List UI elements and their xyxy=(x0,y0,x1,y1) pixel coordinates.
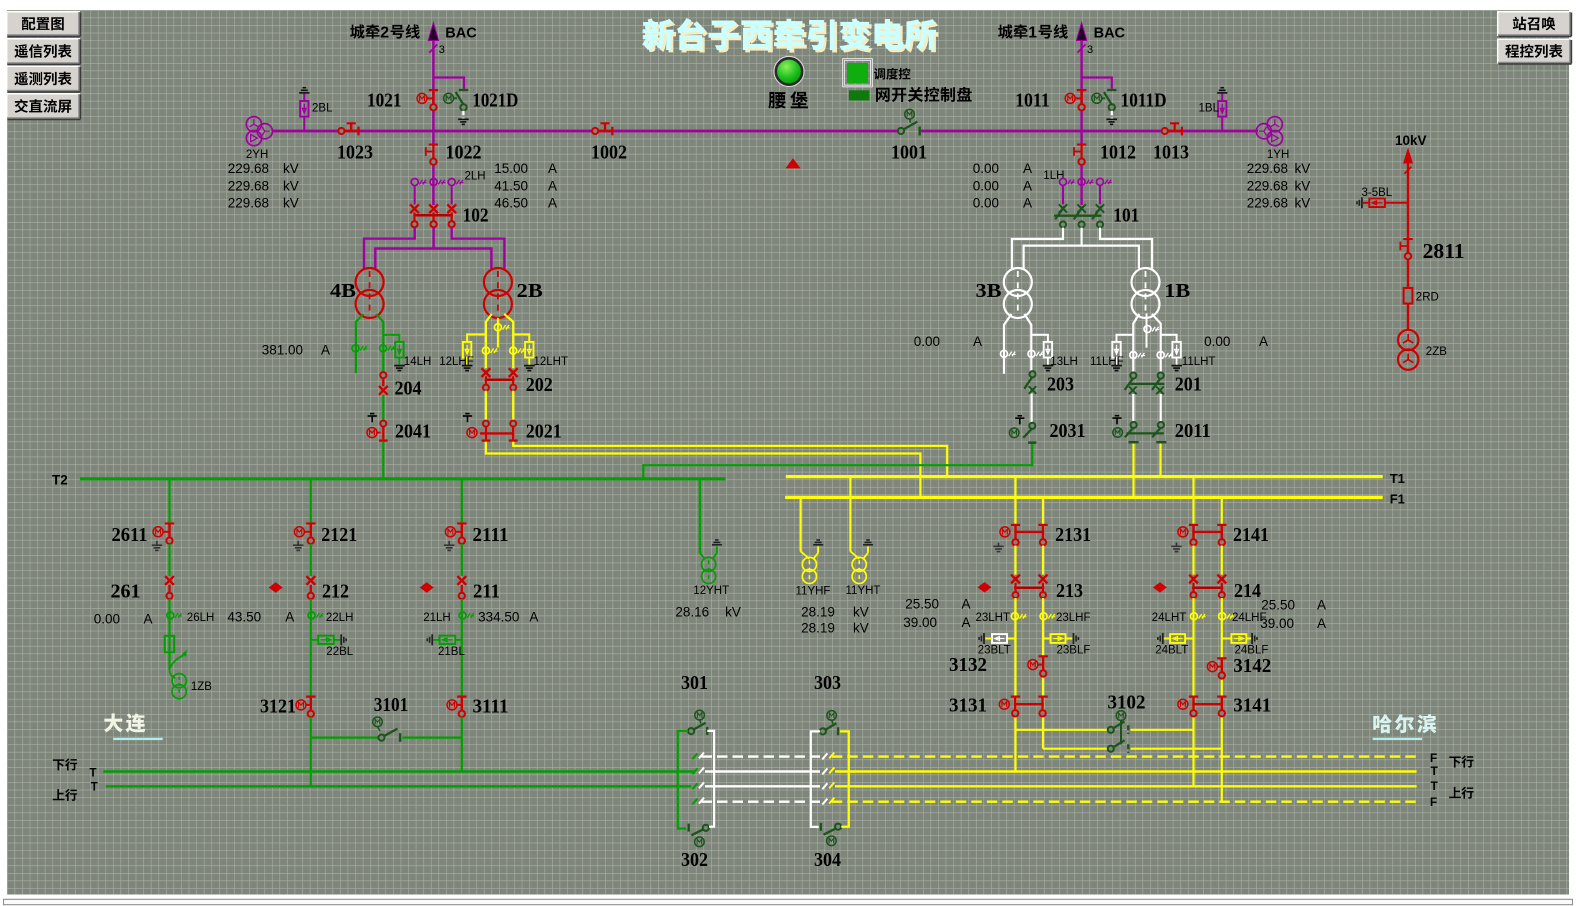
button 遥信列表 xyxy=(6,38,80,64)
wire F1-11YHF xyxy=(799,499,801,552)
svg-text:1: 1 xyxy=(1028,24,1037,41)
label 调度控 xyxy=(874,68,885,80)
disconnector 2611 xyxy=(165,522,174,524)
disconnector 101 open xyxy=(1059,204,1067,212)
svg-text:A: A xyxy=(1023,161,1032,176)
transformer 2B xyxy=(484,268,512,296)
bus purple left xyxy=(272,130,898,133)
wire 261-ct xyxy=(168,599,170,670)
breaker 102 xyxy=(410,204,419,213)
svg-text:28.16: 28.16 xyxy=(675,605,709,620)
svg-text:21BL: 21BL xyxy=(438,646,465,658)
wire 3101 right xyxy=(402,736,462,738)
ct 1B a xyxy=(1130,352,1137,359)
indicator rect 网开关控制盘 xyxy=(849,90,870,100)
wire T2-2111 xyxy=(461,480,463,523)
ground 13LH xyxy=(1047,358,1049,366)
svg-text:A: A xyxy=(144,612,153,627)
ct 23LHT xyxy=(1011,613,1018,620)
svg-text:kV: kV xyxy=(1295,196,1311,211)
svg-text:213: 213 xyxy=(1056,580,1083,602)
wire 14LH branch xyxy=(383,335,399,342)
svg-text:25.50: 25.50 xyxy=(1261,598,1295,613)
svg-text:1LH: 1LH xyxy=(1043,170,1064,182)
wire 2131-213 L xyxy=(1014,546,1016,575)
wire 101 mid leg xyxy=(1080,228,1082,246)
disconnector 3131 xyxy=(1011,695,1020,697)
breaker 214 xyxy=(1189,575,1198,584)
wire 201-2011 b xyxy=(1160,394,1162,422)
svg-text:2021: 2021 xyxy=(526,421,562,443)
svg-text:kV: kV xyxy=(853,605,869,620)
wire 1LH stub c xyxy=(1099,186,1101,205)
wire bus-1022 xyxy=(432,131,434,144)
transformer 2ZB xyxy=(1398,330,1418,350)
disconnector 3142 xyxy=(1217,657,1226,659)
arrester 21BL xyxy=(455,639,462,641)
svg-text:3111: 3111 xyxy=(473,696,509,718)
wire T2-2121 xyxy=(310,480,312,523)
svg-text:22BL: 22BL xyxy=(326,646,353,658)
ground 11LHF xyxy=(1116,358,1118,366)
svg-text:BAC: BAC xyxy=(445,25,477,41)
wire 1B left leg xyxy=(1133,314,1139,372)
svg-text:A: A xyxy=(529,610,538,625)
wire F1-2131R xyxy=(1042,499,1044,524)
svg-text:2811: 2811 xyxy=(1423,239,1465,263)
wire 3121-rail xyxy=(310,717,312,787)
wire 201-2011 a xyxy=(1132,394,1134,422)
svg-text:A: A xyxy=(1317,598,1326,613)
ct 2B centre xyxy=(494,324,501,331)
svg-text:A: A xyxy=(962,615,971,630)
svg-text:A: A xyxy=(1259,334,1268,349)
svg-text:2: 2 xyxy=(380,24,389,41)
ground 2111 xyxy=(448,541,450,545)
ct 14LH b xyxy=(380,345,387,352)
svg-text:26LH: 26LH xyxy=(187,612,215,624)
svg-text:0.00: 0.00 xyxy=(973,179,999,194)
pt 11YHT xyxy=(850,551,859,559)
svg-text:A: A xyxy=(1023,179,1032,194)
svg-text:204: 204 xyxy=(395,378,422,400)
svg-text:1BL: 1BL xyxy=(1199,103,1220,115)
wire 2021 to F1 xyxy=(486,442,921,498)
svg-text:2BL: 2BL xyxy=(312,103,333,115)
ground 12LHF xyxy=(466,358,468,366)
title 新台子西牵引变电所 xyxy=(642,19,674,50)
arrester 22BL xyxy=(312,639,319,641)
svg-text:T: T xyxy=(91,782,98,794)
transformer 1B xyxy=(1132,268,1160,296)
svg-text:12LHF: 12LHF xyxy=(439,356,474,368)
svg-text:T: T xyxy=(1431,764,1439,778)
switch 3102 lower xyxy=(1108,746,1114,752)
rail F up yellow xyxy=(832,801,1417,803)
earth switch 1021D xyxy=(459,89,468,91)
svg-text:4B: 4B xyxy=(330,280,356,302)
ct 12 a xyxy=(482,347,489,354)
wire 3B left leg xyxy=(1004,314,1012,374)
label 下行 right xyxy=(1449,756,1460,767)
svg-text:kV: kV xyxy=(1295,161,1311,176)
ct 2LH c xyxy=(448,179,455,186)
svg-text:1001: 1001 xyxy=(891,142,927,164)
svg-text:A: A xyxy=(962,597,971,612)
ground 1021D xyxy=(458,118,469,120)
pt 11YHF xyxy=(801,551,810,559)
breaker 2811 xyxy=(1403,238,1412,240)
svg-text:21LH: 21LH xyxy=(423,612,451,624)
wire 2131-213 R xyxy=(1042,546,1044,575)
breaker 261 xyxy=(165,576,174,585)
wire 2B left leg xyxy=(486,314,492,368)
rail T up yellow xyxy=(835,785,1417,787)
wire 4B right leg xyxy=(376,314,383,372)
breaker 212 xyxy=(306,576,315,585)
wire 211-3111 xyxy=(461,599,463,696)
pt 2YH xyxy=(246,117,261,132)
label 上行 right xyxy=(1449,787,1461,798)
incoming line arrow xyxy=(428,23,438,41)
button 配置图 xyxy=(6,11,80,36)
disconnector 1021 xyxy=(429,89,438,91)
ct 23LHF xyxy=(1040,613,1047,620)
button 遥测列表 xyxy=(6,66,80,92)
arrow 1ZB xyxy=(170,655,184,668)
label 网开关控制盘 xyxy=(876,88,890,102)
svg-text:102: 102 xyxy=(463,205,489,227)
disconnector 1023 xyxy=(345,130,359,132)
svg-text:kV: kV xyxy=(853,620,869,635)
svg-text:2LH: 2LH xyxy=(465,171,486,183)
svg-text:3B: 3B xyxy=(976,280,1002,302)
svg-text:kV: kV xyxy=(283,179,299,194)
ct 21LH xyxy=(459,612,466,619)
wire 101 left leg xyxy=(1012,228,1063,269)
earth switch 2011 xyxy=(1131,422,1137,428)
wire 202-2021 b xyxy=(512,391,514,421)
indicator square 调度控 xyxy=(847,63,868,83)
svg-text:1YH: 1YH xyxy=(1267,149,1289,161)
svg-text:kV: kV xyxy=(283,196,299,211)
svg-text:A: A xyxy=(285,610,294,625)
wire 214 col L xyxy=(1192,598,1194,786)
svg-text:3-5BL: 3-5BL xyxy=(1362,187,1393,199)
svg-text:12YHT: 12YHT xyxy=(693,585,729,597)
svg-text:202: 202 xyxy=(526,374,553,396)
arrester 12LHT xyxy=(525,342,533,358)
disconnector 2131 xyxy=(1011,524,1020,526)
earth switch 2021 xyxy=(483,421,489,427)
alarm triangle xyxy=(785,158,800,168)
rail T up white xyxy=(705,785,820,787)
bracket 303 yellow xyxy=(840,731,849,826)
wire T1-2131L xyxy=(1014,478,1016,524)
wire 1B centre xyxy=(1146,314,1148,348)
svg-text:24BLT: 24BLT xyxy=(1155,645,1188,657)
svg-text:kV: kV xyxy=(283,161,299,176)
bus purple right xyxy=(921,130,1258,133)
button 站召唤 xyxy=(1497,11,1571,36)
arrester 24BLT xyxy=(1185,638,1193,640)
svg-text:24LHT: 24LHT xyxy=(1152,612,1187,624)
svg-text:T1: T1 xyxy=(1390,471,1405,486)
svg-text:2031: 2031 xyxy=(1050,420,1086,442)
breaker 204 xyxy=(380,372,386,378)
ct 3B b xyxy=(1028,350,1035,357)
title shadow xyxy=(644,21,676,52)
rail T down white xyxy=(705,770,820,772)
svg-text:10kV: 10kV xyxy=(1395,133,1427,148)
label 城牵1号线 xyxy=(998,24,1013,38)
breaker 213 xyxy=(1011,575,1020,584)
arrester 11LHF xyxy=(1112,342,1120,358)
svg-text:1ZB: 1ZB xyxy=(191,681,212,693)
transformer 1ZB xyxy=(170,671,176,679)
bus T2 xyxy=(80,477,726,480)
transformer 4B xyxy=(356,268,384,296)
wire T2-12YHT xyxy=(699,480,701,553)
svg-text:15.00: 15.00 xyxy=(494,161,528,176)
svg-text:2041: 2041 xyxy=(395,421,431,443)
indicator lamp 腰堡 xyxy=(774,57,804,87)
ct 1B b xyxy=(1157,352,1164,359)
svg-text:11YHT: 11YHT xyxy=(846,585,881,597)
rail F down yellow xyxy=(832,755,1417,757)
disconnector 2111 xyxy=(457,522,466,524)
breaker 202 xyxy=(482,368,491,377)
indicator square frame xyxy=(844,60,872,87)
svg-text:3131: 3131 xyxy=(949,694,987,716)
svg-text:25.50: 25.50 xyxy=(905,597,939,612)
rail F up white xyxy=(702,801,821,803)
phase slash 10kV xyxy=(1404,167,1411,174)
svg-text:T: T xyxy=(1431,779,1439,793)
svg-text:229.68: 229.68 xyxy=(228,179,269,194)
switch 303 xyxy=(827,711,837,721)
svg-text:F: F xyxy=(1430,751,1437,765)
ct 14LH a xyxy=(352,345,359,352)
arrester 3-5BL xyxy=(1385,202,1408,204)
wire branch to 1011D xyxy=(1082,78,1112,89)
wire ct stub a xyxy=(414,186,416,204)
fuse 2RD xyxy=(1404,288,1413,304)
svg-text:F: F xyxy=(1430,795,1437,809)
switch 3102 upper xyxy=(1108,727,1114,733)
svg-text:3132: 3132 xyxy=(949,654,987,676)
wire feeder 1 vertical xyxy=(1080,41,1082,132)
svg-text:1012: 1012 xyxy=(1100,142,1136,164)
label 腰堡 xyxy=(768,92,786,109)
wire ct stub c xyxy=(451,186,453,204)
disconnector 3141 xyxy=(1189,695,1198,697)
svg-text:1002: 1002 xyxy=(591,142,627,164)
pt 12YHT xyxy=(700,553,705,559)
earth switch 1011D xyxy=(1107,89,1116,91)
svg-text:1021: 1021 xyxy=(367,90,402,112)
svg-text:301: 301 xyxy=(681,672,708,694)
bracket 301 white xyxy=(707,731,714,827)
label 上行 left xyxy=(53,789,65,800)
svg-text:229.68: 229.68 xyxy=(1247,161,1288,176)
svg-text:2011: 2011 xyxy=(1175,420,1211,442)
ground 11LHT xyxy=(1176,358,1178,366)
svg-text:2RD: 2RD xyxy=(1416,292,1439,304)
svg-text:3141: 3141 xyxy=(1233,694,1271,716)
ct 1LH c xyxy=(1097,178,1104,185)
label 大连 xyxy=(104,713,123,732)
diamond 213 xyxy=(978,582,992,592)
earth switch 2031 xyxy=(1029,423,1035,429)
svg-text:11YHF: 11YHF xyxy=(796,586,831,598)
disconnector 1011 xyxy=(1077,89,1086,91)
ct 12 b xyxy=(510,347,517,354)
wire 12LHT branch xyxy=(513,334,529,342)
indicator gradient xyxy=(0,0,1,1)
switch 3102 link xyxy=(1116,711,1126,721)
arrester 23BLT xyxy=(1007,638,1015,640)
underline 大连 xyxy=(113,738,163,740)
svg-text:11LHF: 11LHF xyxy=(1090,356,1124,368)
wire 3101 left xyxy=(311,736,379,738)
svg-text:A: A xyxy=(1023,196,1032,211)
ct 26LH xyxy=(167,612,174,619)
rail down green xyxy=(103,770,695,772)
disconnector 2141 xyxy=(1189,524,1198,526)
svg-text:12LHT: 12LHT xyxy=(534,356,569,368)
label 下行 left xyxy=(53,759,64,770)
earth switch 2041 xyxy=(380,421,386,427)
svg-text:0.00: 0.00 xyxy=(973,196,999,211)
diamond 214 xyxy=(1153,582,1167,592)
svg-text:201: 201 xyxy=(1175,374,1202,396)
ground 2121 xyxy=(297,541,299,545)
svg-text:334.50: 334.50 xyxy=(478,610,519,625)
svg-text:0.00: 0.00 xyxy=(1204,334,1230,349)
wire 2011 to T1 xyxy=(1159,444,1161,477)
diamond 212 xyxy=(269,582,283,592)
ct 1B centre xyxy=(1144,326,1151,333)
wire 11LHT branch xyxy=(1161,335,1177,342)
svg-text:212: 212 xyxy=(322,581,349,603)
wire 203-2031 xyxy=(1030,394,1032,423)
svg-text:11LHT: 11LHT xyxy=(1182,356,1216,368)
wire earth white dashed xyxy=(462,111,464,119)
wire 204-2041 xyxy=(382,395,384,421)
switch 301 xyxy=(695,710,705,720)
wire T2-2611 xyxy=(168,480,170,523)
disconnector 3132 xyxy=(1039,655,1048,657)
button 交直流屏 xyxy=(6,93,80,119)
wire 2141-214 L xyxy=(1192,546,1194,575)
wire 1022-2LH xyxy=(432,165,434,205)
svg-text:39.00: 39.00 xyxy=(903,615,937,630)
wire 213 col L xyxy=(1014,598,1016,772)
wire 12LHF branch xyxy=(467,334,486,342)
rail up green xyxy=(106,785,691,787)
wire 3102 bot left xyxy=(1043,748,1108,750)
svg-text:211: 211 xyxy=(473,581,500,603)
svg-text:229.68: 229.68 xyxy=(228,161,269,176)
svg-text:A: A xyxy=(973,334,982,349)
ct 24LHT xyxy=(1190,613,1197,620)
svg-text:1011D: 1011D xyxy=(1121,90,1167,112)
bracket 301 green xyxy=(678,731,688,829)
wire 13LH branch xyxy=(1031,335,1048,342)
bus F1 xyxy=(785,496,1383,499)
svg-text:3121: 3121 xyxy=(260,696,296,718)
ct 3B a xyxy=(1001,350,1008,357)
svg-text:304: 304 xyxy=(814,849,841,871)
svg-text:0.00: 0.00 xyxy=(973,161,999,176)
svg-text:229.68: 229.68 xyxy=(1247,196,1288,211)
breaker 1012 xyxy=(1077,144,1086,146)
wire 3B right leg xyxy=(1024,314,1031,371)
svg-text:302: 302 xyxy=(681,849,708,871)
wire 3102 bot right xyxy=(1131,748,1222,750)
svg-text:43.50: 43.50 xyxy=(227,610,261,625)
svg-text:1023: 1023 xyxy=(337,142,373,164)
arrester 24BLF xyxy=(1222,638,1232,640)
bottom scrollbar strip xyxy=(4,899,1573,904)
wire 214 col R xyxy=(1221,598,1223,802)
wire 102 right leg xyxy=(452,227,505,268)
wire 1B right leg xyxy=(1152,314,1161,372)
svg-text:22LH: 22LH xyxy=(326,612,354,624)
underline 哈尔滨 xyxy=(1373,738,1423,740)
rail F down white xyxy=(702,755,821,757)
svg-text:2111: 2111 xyxy=(473,524,509,546)
switch 302 xyxy=(688,824,690,832)
wire 213 col R xyxy=(1042,598,1044,749)
svg-text:0.00: 0.00 xyxy=(94,612,120,627)
incoming line arrow right xyxy=(1076,23,1086,41)
arrow 10kV xyxy=(1403,148,1413,164)
wire 2111-211 xyxy=(461,544,463,576)
svg-text:41.50: 41.50 xyxy=(494,179,528,194)
bracket 303 white xyxy=(811,731,820,827)
wire 4B left leg xyxy=(356,314,364,373)
rail T down yellow xyxy=(835,770,1417,772)
wire T1-11YHT xyxy=(849,478,851,552)
ground 12LHT xyxy=(528,358,530,366)
wire 2011 to F1 xyxy=(1132,444,1134,498)
transformer 3B xyxy=(1004,268,1032,296)
ct 24LHF xyxy=(1219,613,1226,620)
wire 2B centre xyxy=(497,318,499,348)
svg-text:23LHF: 23LHF xyxy=(1056,612,1091,624)
pt 1YH xyxy=(1256,124,1271,139)
wire 3102 top left xyxy=(1016,729,1108,731)
svg-text:214: 214 xyxy=(1234,580,1261,602)
arrester 14LH xyxy=(395,342,403,358)
svg-text:BAC: BAC xyxy=(1094,25,1126,41)
svg-text:A: A xyxy=(548,179,557,194)
disconnector 1002 xyxy=(598,130,612,132)
svg-text:203: 203 xyxy=(1047,374,1074,396)
wire 11LHF branch xyxy=(1117,335,1134,342)
svg-text:kV: kV xyxy=(725,605,741,620)
label 哈尔滨 xyxy=(1373,714,1392,733)
svg-text:13LH: 13LH xyxy=(1050,356,1078,368)
diamond 211 xyxy=(420,582,434,592)
svg-text:229.68: 229.68 xyxy=(1247,179,1288,194)
wire 2041-T2 xyxy=(382,442,384,479)
wire branch to 1021D xyxy=(433,78,464,89)
wire 3111-rail xyxy=(461,717,463,772)
fuse 1ZB xyxy=(165,636,174,653)
